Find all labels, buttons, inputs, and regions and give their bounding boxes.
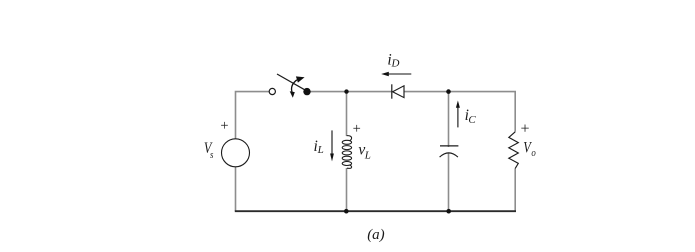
svg-text:+: + [521, 121, 530, 138]
capacitor C [440, 146, 459, 157]
svg-text:iC: iC [465, 107, 477, 126]
svg-text:iL: iL [314, 138, 324, 156]
svg-text:iD: iD [387, 52, 399, 70]
switch contact dot [303, 88, 310, 95]
svg-text:Vo: Vo [523, 139, 536, 159]
inductor L coil [342, 136, 351, 169]
svg-text:vL: vL [358, 142, 370, 162]
svg-text:Vs: Vs [204, 140, 214, 161]
wire switch dot to diode cathode [307, 91, 391, 93]
current arrow iD [381, 72, 411, 76]
wire capacitor branch top [448, 92, 450, 147]
voltage source Vs [222, 139, 250, 167]
label Vo [523, 139, 536, 159]
switch blade [277, 74, 307, 91]
diode D [392, 84, 404, 98]
current arrow iC [456, 101, 460, 128]
wire diode anode to capacitor node [404, 91, 449, 93]
label Vs [204, 140, 214, 161]
wire inductor branch top [346, 92, 348, 136]
junction node bottom of capacitor [446, 209, 451, 214]
wire bottom return [235, 210, 516, 212]
svg-text:+: + [353, 121, 361, 137]
wire resistor bottom to bottom-right corner [514, 168, 516, 211]
wire inductor branch bottom [346, 168, 348, 211]
wire capacitor node to top-right corner down to resistor top [449, 92, 516, 132]
current arrow iL [330, 130, 334, 161]
switch open contact [269, 88, 275, 94]
junction node bottom of inductor [344, 209, 349, 214]
wire top-left: source top to switch open contact [236, 92, 270, 139]
wire source bottom to bottom-left corner [235, 167, 237, 211]
switch motion arrow [290, 76, 305, 97]
wire capacitor branch bottom [448, 153, 450, 212]
junction node top of inductor [344, 89, 348, 93]
svg-text:(a): (a) [367, 227, 385, 243]
junction node top of capacitor [446, 89, 451, 94]
svg-text:+: + [220, 118, 228, 134]
resistor load R [509, 132, 519, 169]
